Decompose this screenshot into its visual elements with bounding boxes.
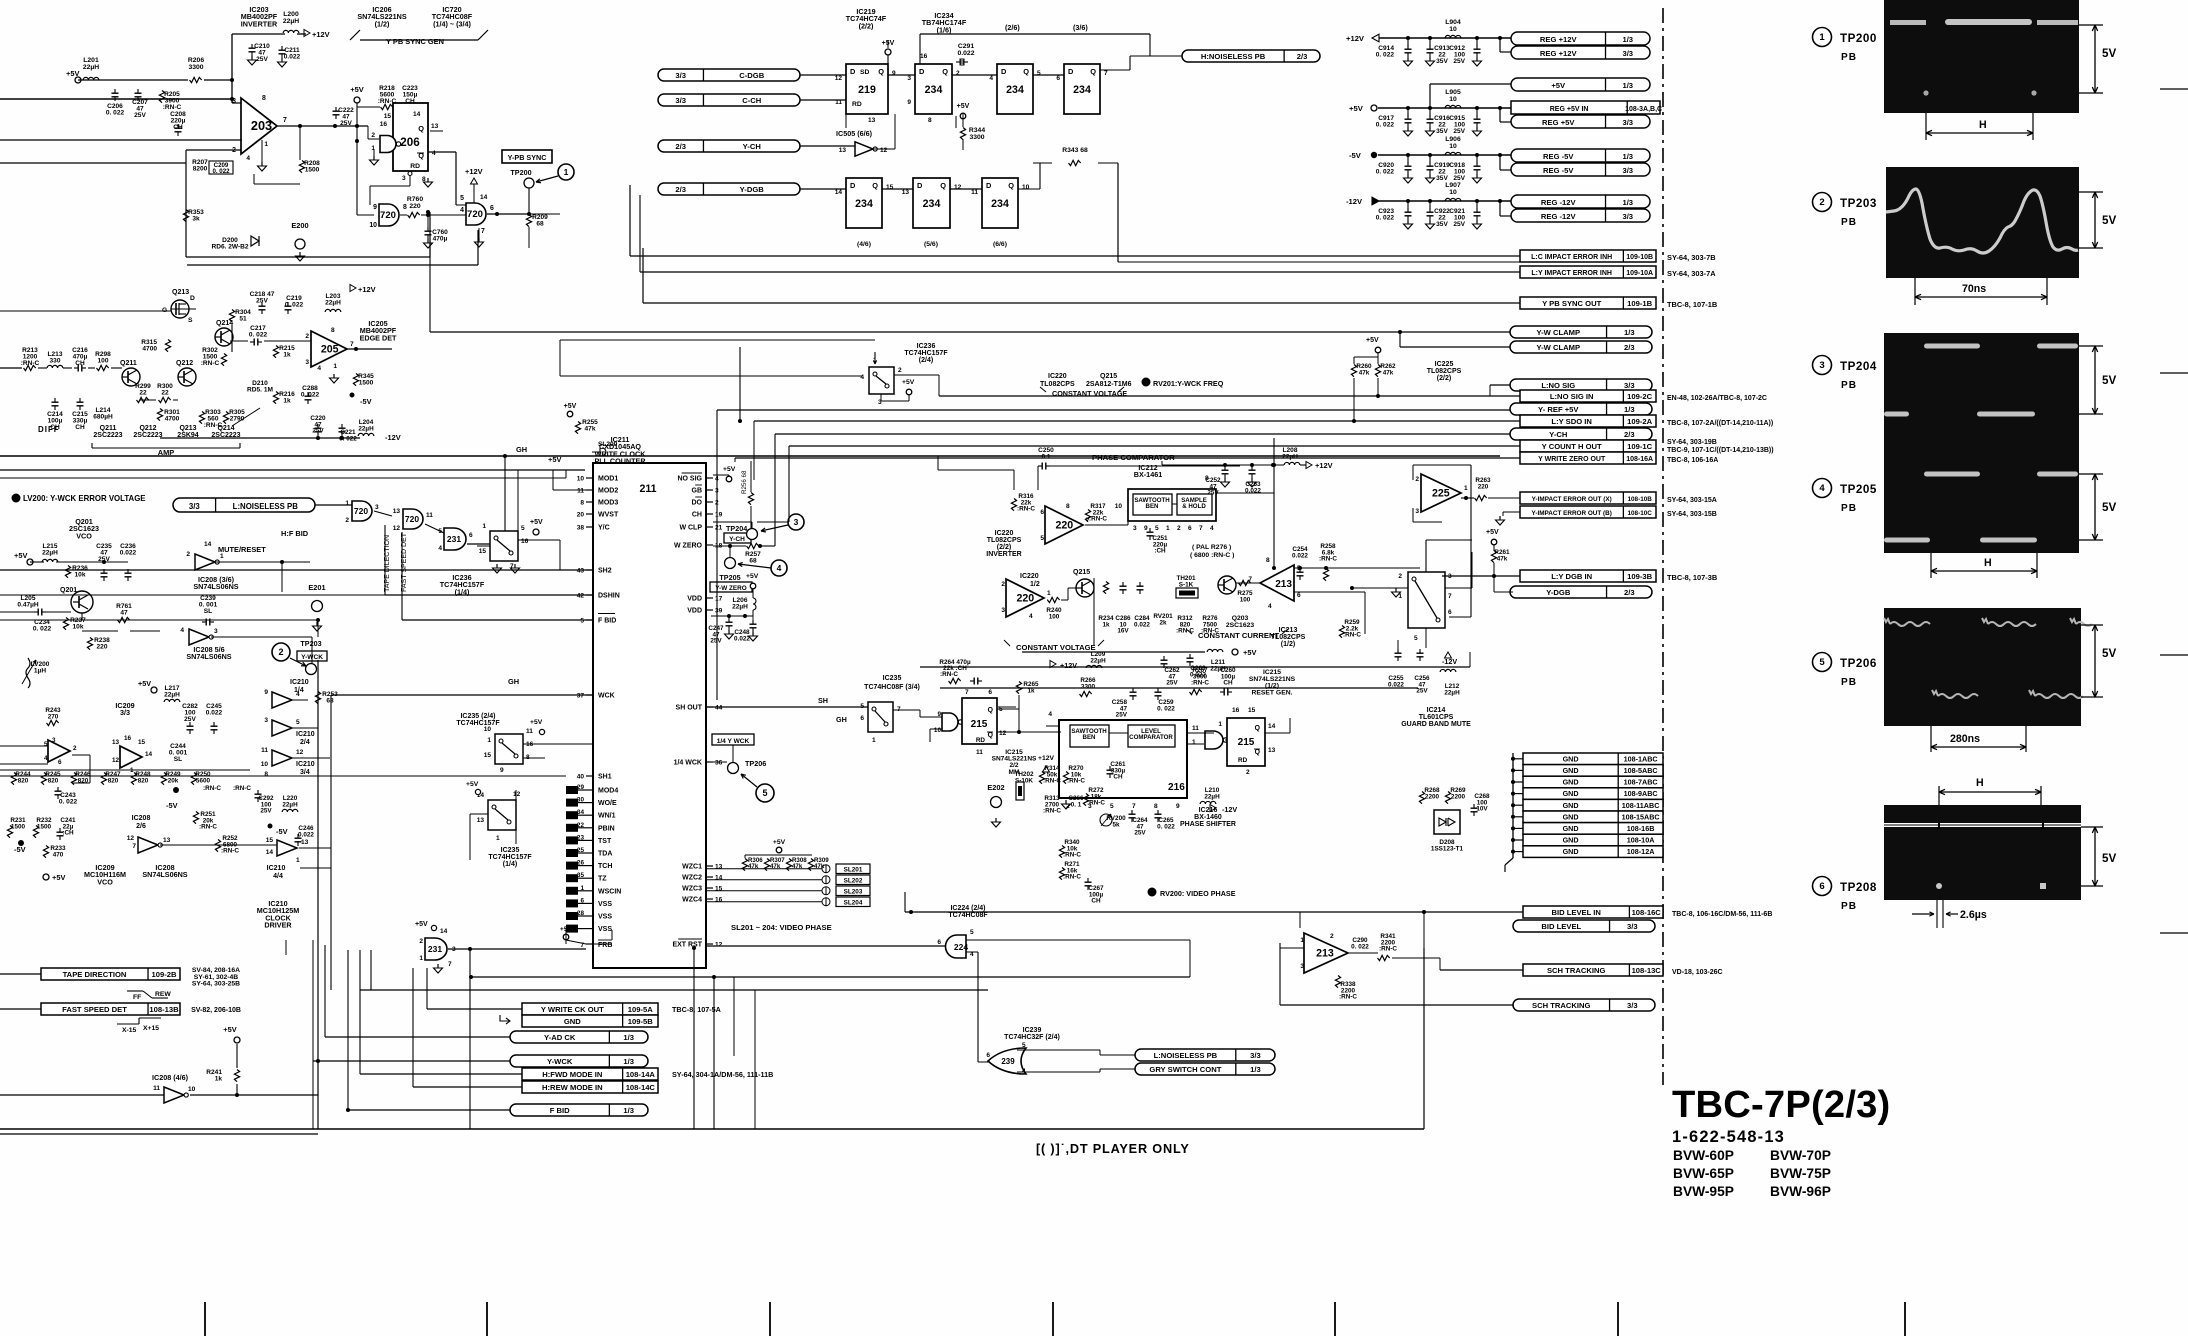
svg-text:7: 7 <box>1199 525 1203 532</box>
svg-text:WSCIN: WSCIN <box>598 888 621 895</box>
svg-text:BEN: BEN <box>1146 503 1160 510</box>
svg-text:5V: 5V <box>2102 374 2116 387</box>
svg-text:RD6. 2W-B2: RD6. 2W-B2 <box>211 244 248 251</box>
svg-text:1500: 1500 <box>37 823 52 830</box>
svg-text:1/2: 1/2 <box>1030 581 1040 588</box>
svg-text:280ns: 280ns <box>1950 733 1980 745</box>
svg-text:D: D <box>986 181 992 190</box>
svg-text:10: 10 <box>1449 26 1457 33</box>
svg-text:GND: GND <box>564 1017 581 1026</box>
wire clock drivers <box>0 745 48 747</box>
wire W ZERO <box>713 545 746 547</box>
capacitor C284 <box>1137 585 1144 587</box>
svg-text:4: 4 <box>777 563 782 573</box>
wire 216 block <box>998 706 1016 708</box>
svg-text:1: 1 <box>1819 32 1825 43</box>
svg-text:PBIN: PBIN <box>598 825 615 832</box>
capacitor C214 <box>52 401 59 403</box>
op-amp IC213 left pointing <box>1260 565 1294 601</box>
connector label REG -5V 3/3 <box>1511 163 1650 176</box>
svg-text:3300: 3300 <box>969 134 984 141</box>
wire IC224 connections <box>966 939 1190 941</box>
svg-text:2SA812-T1M6: 2SA812-T1M6 <box>1086 381 1132 388</box>
connector label REG +12V 3/3 <box>1511 46 1650 59</box>
svg-text:1: 1 <box>872 737 876 744</box>
svg-text:L:NO SIG IN: L:NO SIG IN <box>1550 392 1594 401</box>
svg-text:220: 220 <box>1055 520 1073 532</box>
svg-text:211: 211 <box>639 483 656 495</box>
wire L Y DGB <box>1442 575 1520 577</box>
svg-text:7: 7 <box>350 341 354 348</box>
svg-text:13: 13 <box>301 839 309 846</box>
svg-text:215: 215 <box>971 719 988 730</box>
svg-text:1: 1 <box>487 737 491 744</box>
svg-text:1: 1 <box>1047 590 1051 597</box>
test point label TP204 <box>1813 356 1832 375</box>
nand gate at IC206 input <box>380 136 396 153</box>
svg-text:WN/1: WN/1 <box>598 813 616 820</box>
svg-text:SL204: SL204 <box>844 900 863 907</box>
svg-text:W CLP: W CLP <box>679 525 702 532</box>
transistor Q215b <box>1076 579 1094 597</box>
svg-text:3/3: 3/3 <box>189 502 201 511</box>
svg-text:11: 11 <box>426 512 433 519</box>
svg-text:D: D <box>1001 67 1007 76</box>
svg-text:VSS: VSS <box>598 926 612 933</box>
resistor R255 <box>575 422 580 434</box>
svg-text:70ns: 70ns <box>1962 283 1986 295</box>
svg-text:40: 40 <box>577 774 585 781</box>
svg-text:3/3: 3/3 <box>1622 49 1633 58</box>
svg-text:68: 68 <box>749 558 757 565</box>
svg-text:9: 9 <box>500 767 504 774</box>
flip-flop IC206 206 <box>393 103 428 171</box>
svg-text:Y PB SYNC GEN: Y PB SYNC GEN <box>386 37 444 46</box>
svg-text:H: H <box>1976 777 1984 789</box>
svg-text:(2/2): (2/2) <box>1437 375 1451 382</box>
svg-text:(2/6): (2/6) <box>1005 23 1020 32</box>
svg-text:2/3: 2/3 <box>675 185 686 194</box>
capacitor C258 C259 <box>1130 691 1137 693</box>
scope photo TP208 <box>1884 805 2081 823</box>
and gate IC224 left pointing <box>946 935 967 958</box>
svg-text:47: 47 <box>120 610 128 617</box>
capacitor C210 <box>249 47 256 49</box>
svg-text:L:NO SIG: L:NO SIG <box>1541 381 1575 390</box>
svg-text:-12V: -12V <box>385 433 401 442</box>
svg-text:1500: 1500 <box>11 823 26 830</box>
svg-text:S-1K: S-1K <box>1179 581 1194 588</box>
connector label L:Y DGB IN <box>1520 570 1656 582</box>
svg-text:+5V: +5V <box>773 839 786 846</box>
svg-text:Q213: Q213 <box>179 425 196 432</box>
svg-text:10: 10 <box>369 222 377 229</box>
svg-text:(4/6): (4/6) <box>857 241 871 248</box>
svg-text:RD5. 1M: RD5. 1M <box>247 387 273 394</box>
svg-text:108-16A: 108-16A <box>1626 456 1653 463</box>
wire 1/4 wck <box>706 761 727 763</box>
svg-text:0. 022: 0. 022 <box>1376 52 1395 59</box>
svg-text:5: 5 <box>1819 657 1825 668</box>
video phase delay SL201-204 <box>836 864 870 874</box>
svg-text:1µH: 1µH <box>34 668 46 675</box>
svg-text:12: 12 <box>112 757 120 764</box>
svg-text:VCO: VCO <box>76 531 92 540</box>
svg-text:1/3: 1/3 <box>1624 328 1635 337</box>
svg-text:GND: GND <box>1563 766 1579 775</box>
svg-text:+5V: +5V <box>530 719 543 726</box>
svg-text:22µH: 22µH <box>282 801 298 808</box>
svg-text:213: 213 <box>1316 948 1334 960</box>
capacitor C207 <box>135 92 142 94</box>
capacitor C208 <box>175 127 182 129</box>
capacitor C916 <box>1428 106 1432 110</box>
svg-text:TP203: TP203 <box>300 639 321 648</box>
svg-text:IC208: IC208 <box>132 815 151 822</box>
svg-text::RN-C: :RN-C <box>940 671 958 678</box>
wire +5V to 1/3 pill <box>1429 84 1431 108</box>
svg-text:SY-64, 303-15B: SY-64, 303-15B <box>1667 511 1717 518</box>
svg-text:C-DGB: C-DGB <box>739 71 764 80</box>
svg-text:6: 6 <box>937 939 941 946</box>
svg-text:(6/6): (6/6) <box>993 241 1007 248</box>
svg-text:47k: 47k <box>1497 555 1508 562</box>
svg-text:CH: CH <box>1091 898 1101 905</box>
input pill Y-CH <box>658 140 800 152</box>
svg-text:3300: 3300 <box>188 64 203 71</box>
svg-text:10V: 10V <box>1476 806 1488 813</box>
svg-text:220: 220 <box>97 644 108 651</box>
capacitor C919 <box>1428 153 1432 157</box>
wire impact error out <box>1461 497 1474 499</box>
svg-text:TZ: TZ <box>598 876 607 883</box>
svg-text:1: 1 <box>580 885 584 892</box>
svg-text:2SC1623: 2SC1623 <box>1226 622 1254 629</box>
svg-text:Q: Q <box>1023 67 1029 76</box>
svg-text:TC74HC157F: TC74HC157F <box>904 350 948 357</box>
IC215 215 box second <box>1227 718 1265 766</box>
capacitor C760 <box>427 215 429 228</box>
svg-text:108-14A: 108-14A <box>626 1070 656 1079</box>
svg-text:3: 3 <box>305 359 309 366</box>
H dimension TP200 <box>1925 113 1927 140</box>
svg-text:3/3: 3/3 <box>675 96 686 105</box>
svg-text:SL203: SL203 <box>844 889 863 896</box>
svg-text:6: 6 <box>580 897 584 904</box>
capacitor C286 <box>1120 585 1127 587</box>
svg-text:6: 6 <box>1040 509 1044 516</box>
wire W CLP to TP204 <box>713 521 752 523</box>
svg-text:1SS123-T1: 1SS123-T1 <box>1431 845 1464 852</box>
svg-text:TBC-7P(2/3): TBC-7P(2/3) <box>1672 1083 1890 1126</box>
svg-text:108-1ABC: 108-1ABC <box>1624 754 1658 763</box>
svg-text:5: 5 <box>1037 70 1041 77</box>
svg-text:108-10B: 108-10B <box>1627 496 1652 503</box>
svg-text:6: 6 <box>1297 592 1301 599</box>
svg-text:2: 2 <box>345 517 349 524</box>
svg-text:15: 15 <box>384 113 392 120</box>
svg-text:IC505 (6/6): IC505 (6/6) <box>836 129 873 138</box>
svg-text:FAST SPEED DET: FAST SPEED DET <box>62 1005 127 1014</box>
svg-text:VCO: VCO <box>97 877 113 886</box>
svg-text:4: 4 <box>438 545 442 552</box>
nand gate IC215 input <box>942 713 958 731</box>
svg-text:14: 14 <box>480 194 488 201</box>
svg-text:(1/2): (1/2) <box>375 19 390 28</box>
svg-text:SL: SL <box>174 756 182 763</box>
svg-text:3/3: 3/3 <box>1250 1051 1261 1060</box>
guard band mute switch <box>1408 572 1445 628</box>
svg-text:SL: SL <box>204 608 212 615</box>
svg-text:22µH: 22µH <box>283 18 299 25</box>
svg-text:25V: 25V <box>710 638 722 645</box>
wire fbid vertical <box>317 620 319 637</box>
svg-text:1: 1 <box>1218 721 1222 728</box>
svg-text:8: 8 <box>262 95 266 102</box>
resistor R252 <box>215 840 220 852</box>
resistor R257 <box>747 543 759 548</box>
svg-text:3: 3 <box>1133 525 1137 532</box>
svg-text:13: 13 <box>112 739 120 746</box>
280ns dimension TP206 <box>1930 726 1932 752</box>
IC215 215 box first <box>962 698 997 744</box>
svg-text:51: 51 <box>239 316 247 323</box>
svg-text:720: 720 <box>354 506 368 516</box>
transistor Q211 <box>122 368 140 386</box>
svg-text:MUTE/RESET: MUTE/RESET <box>218 545 266 554</box>
svg-text:19: 19 <box>715 512 723 519</box>
svg-text:Y-AD CK: Y-AD CK <box>544 1033 576 1042</box>
svg-text:1/3: 1/3 <box>1622 198 1633 207</box>
svg-text:25V: 25V <box>1166 680 1178 687</box>
svg-text:6: 6 <box>988 689 992 696</box>
svg-text:D: D <box>1068 67 1074 76</box>
svg-text:1: 1 <box>496 835 500 842</box>
connector label Y COUNT H OUT <box>1520 440 1656 452</box>
5V arrows TP204 TP205 <box>2079 345 2103 347</box>
wire wzc lines <box>744 855 746 858</box>
svg-text:1/3: 1/3 <box>1250 1065 1261 1074</box>
svg-text:Q201: Q201 <box>60 587 77 594</box>
svg-text:Y-PB SYNC: Y-PB SYNC <box>508 153 547 162</box>
svg-text:H:FWD MODE IN: H:FWD MODE IN <box>542 1070 602 1079</box>
transistor Q213 fet <box>171 300 189 318</box>
svg-text:( PAL R276 ): ( PAL R276 ) <box>1192 544 1231 551</box>
svg-text:7: 7 <box>1132 803 1136 810</box>
svg-text:Y-W ZERO: Y-W ZERO <box>715 585 746 592</box>
nand gate 215b <box>1205 731 1223 749</box>
svg-text:EXT RST: EXT RST <box>672 942 702 949</box>
svg-text:TP204: TP204 <box>1840 360 1877 373</box>
svg-text:PB: PB <box>1841 52 1857 63</box>
svg-text:11: 11 <box>526 728 533 735</box>
wire wck from clock driver <box>285 940 287 955</box>
svg-text:7: 7 <box>965 689 969 696</box>
circled 2 pointer TP203 <box>272 643 290 661</box>
svg-text:-5V: -5V <box>276 827 288 836</box>
svg-text:108-5ABC: 108-5ABC <box>1624 766 1658 775</box>
svg-text:9: 9 <box>1176 803 1180 810</box>
connector label REG +12V 1/3 <box>1511 32 1650 45</box>
scope photo TP200 <box>1884 0 2079 113</box>
svg-text:BID LEVEL IN: BID LEVEL IN <box>1551 908 1600 917</box>
svg-text:Q215: Q215 <box>1073 569 1090 576</box>
svg-text:(1/6): (1/6) <box>937 25 952 34</box>
connector label L:NO SIG IN <box>1520 390 1656 402</box>
svg-text:7: 7 <box>1448 593 1452 600</box>
svg-text:RD: RD <box>976 737 986 744</box>
svg-text:TBC-8, 107-1B: TBC-8, 107-1B <box>1667 300 1718 309</box>
wire gnd mute switch <box>1445 587 1472 589</box>
svg-text:+12V: +12V <box>1060 661 1077 670</box>
svg-text:& HOLD: & HOLD <box>1182 503 1206 510</box>
svg-text:1/4 Y WCK: 1/4 Y WCK <box>717 738 750 745</box>
svg-text:25V: 25V <box>1453 128 1465 135</box>
flip-flop IC234 3 <box>1064 64 1100 114</box>
svg-text:21: 21 <box>715 525 723 532</box>
IC216 216 box <box>1059 720 1187 798</box>
svg-text:2200: 2200 <box>1451 793 1466 800</box>
svg-text:108-13C: 108-13C <box>1632 966 1662 975</box>
svg-text:108-10A: 108-10A <box>1627 836 1655 845</box>
svg-text:SN74LS06NS: SN74LS06NS <box>142 870 187 879</box>
svg-text:TC74HC08F: TC74HC08F <box>948 912 988 919</box>
svg-text:10: 10 <box>577 476 585 483</box>
svg-text:1k: 1k <box>283 352 291 359</box>
svg-text:+5V: +5V <box>52 873 65 882</box>
transistor Q212 <box>178 368 196 386</box>
svg-text:SN74LS06NS: SN74LS06NS <box>186 652 231 661</box>
svg-text:109-3B: 109-3B <box>1627 572 1653 581</box>
svg-text:WZC2: WZC2 <box>682 875 702 882</box>
switch IC235 3/4 <box>868 702 893 732</box>
svg-text:25V: 25V <box>1453 221 1465 228</box>
svg-text:E202: E202 <box>987 783 1004 792</box>
svg-text:-12V: -12V <box>1222 805 1237 814</box>
svg-text:25V: 25V <box>260 808 272 815</box>
svg-text:470: 470 <box>53 851 64 858</box>
svg-text:9: 9 <box>892 70 896 77</box>
svg-text:10: 10 <box>1449 96 1457 103</box>
resistor R315 <box>165 340 170 352</box>
flip-flop IC234 4 <box>846 178 882 228</box>
svg-text:0. 022: 0. 022 <box>285 302 304 309</box>
svg-text:REG +12V: REG +12V <box>1540 35 1578 44</box>
svg-text:0. 022: 0. 022 <box>1376 169 1395 176</box>
svg-text:12: 12 <box>393 525 401 532</box>
svg-text:VD-18, 103-26C: VD-18, 103-26C <box>1672 969 1723 976</box>
resistor R209 <box>526 215 531 227</box>
svg-text:Y-WCK: Y-WCK <box>547 1057 573 1066</box>
svg-text:FRB: FRB <box>598 942 612 949</box>
svg-text:WCK: WCK <box>598 693 615 700</box>
svg-text:2: 2 <box>73 745 77 752</box>
svg-text:GH: GH <box>836 715 847 724</box>
svg-text:35: 35 <box>577 872 585 879</box>
wire bottom left connectors <box>0 973 41 975</box>
svg-text:25V: 25V <box>1416 688 1428 695</box>
svg-text:3/3: 3/3 <box>1622 212 1633 221</box>
svg-text:7: 7 <box>1248 576 1252 583</box>
svg-text:SH1: SH1 <box>598 774 612 781</box>
svg-text:MOD3: MOD3 <box>598 500 618 507</box>
connector label Y-W CLAMP 1/3 <box>1510 326 1652 338</box>
svg-text:TP206: TP206 <box>1840 657 1877 670</box>
svg-text:SY-64, 303-7B: SY-64, 303-7B <box>1667 253 1716 262</box>
svg-text:2: 2 <box>278 647 283 657</box>
svg-text:42: 42 <box>577 593 585 600</box>
inverter IC208 5/6 <box>189 629 209 645</box>
output pill H NOISELESS PB <box>1182 50 1320 62</box>
capacitor C917 <box>1406 106 1410 110</box>
svg-text:GND: GND <box>1563 847 1579 856</box>
svg-text:REG +12V: REG +12V <box>1540 49 1578 58</box>
resistor R208 <box>299 161 304 173</box>
svg-text:720: 720 <box>467 209 483 220</box>
svg-text:REG -5V: REG -5V <box>1543 152 1574 161</box>
svg-text:3: 3 <box>1001 607 1005 614</box>
svg-text:13: 13 <box>431 123 439 130</box>
connector label Y- REF +5V <box>1510 403 1652 415</box>
svg-text:0. 022: 0. 022 <box>1157 705 1175 712</box>
svg-text:CONSTANT CURRENT: CONSTANT CURRENT <box>1198 631 1280 640</box>
inverter IC210 2/4 <box>272 720 292 736</box>
svg-text:EDGE DET: EDGE DET <box>360 333 397 342</box>
svg-text:(2/2): (2/2) <box>859 21 874 30</box>
svg-text:+5V: +5V <box>1366 337 1379 344</box>
svg-text:108-9ABC: 108-9ABC <box>1624 789 1658 798</box>
wire sch tracking <box>1348 952 1378 954</box>
FF REW waveform symbol <box>127 990 143 992</box>
svg-text:22µH: 22µH <box>83 64 99 71</box>
connector label Y-W CLAMP 2/3 <box>1510 341 1652 353</box>
svg-text:H:F BID: H:F BID <box>281 529 309 538</box>
svg-text:+5V: +5V <box>1243 648 1256 657</box>
svg-text:11: 11 <box>1192 725 1199 732</box>
svg-text:3: 3 <box>907 75 911 82</box>
svg-text:GND: GND <box>1563 836 1579 845</box>
svg-text:15: 15 <box>266 837 274 844</box>
svg-text:3k: 3k <box>192 216 200 223</box>
svg-text:INVERTER: INVERTER <box>986 551 1021 558</box>
svg-text:VSS: VSS <box>598 914 612 921</box>
svg-text:36: 36 <box>715 760 723 767</box>
wire power to ff <box>887 40 889 48</box>
svg-text:108-14C: 108-14C <box>626 1083 656 1092</box>
X-15 X+15 symbol <box>117 1023 139 1025</box>
svg-text:5: 5 <box>762 788 767 798</box>
svg-text:PB: PB <box>1841 380 1857 391</box>
svg-text:2: 2 <box>1415 476 1419 483</box>
or gate IC239 left pointing <box>988 1048 1026 1074</box>
svg-text:1: 1 <box>1464 485 1468 492</box>
svg-text:RD: RD <box>410 163 420 170</box>
svg-text:13: 13 <box>839 147 847 154</box>
svg-text:Y PB SYNC OUT: Y PB SYNC OUT <box>1542 299 1602 308</box>
svg-text:RESET GEN.: RESET GEN. <box>1252 689 1293 696</box>
svg-text:2SC2223: 2SC2223 <box>93 432 122 439</box>
circled 4 pointer <box>771 560 787 576</box>
svg-text:22: 22 <box>139 390 147 397</box>
resistor R238 <box>87 638 92 650</box>
svg-text:5k: 5k <box>1112 821 1120 828</box>
svg-text:LV200: Y-WCK ERROR VOLTAGE: LV200: Y-WCK ERROR VOLTAGE <box>23 494 146 503</box>
svg-text:3/3: 3/3 <box>1622 118 1633 127</box>
svg-text:1/3: 1/3 <box>623 1106 634 1115</box>
svg-text:15: 15 <box>138 739 146 746</box>
svg-text:0. 1: 0. 1 <box>1071 801 1082 808</box>
svg-text:+5V: +5V <box>746 573 759 580</box>
